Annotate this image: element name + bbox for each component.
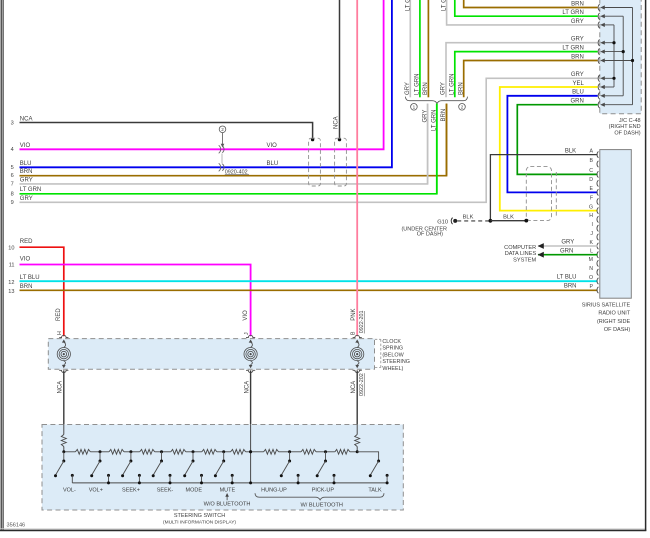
link between breaks (221, 154, 223, 164)
svg-text:TALK: TALK (368, 487, 382, 493)
wire bus to TALK corner (357, 452, 378, 461)
svg-text:STEERING: STEERING (382, 359, 410, 365)
clock spring label leader (375, 338, 381, 340)
switch VOL+ (99, 452, 101, 461)
svg-text:SEEK+: SEEK+ (122, 487, 140, 493)
svg-text:BRN: BRN (20, 284, 33, 290)
node shield drain 2 (338, 138, 341, 141)
svg-text:H: H (589, 213, 593, 219)
svg-text:PNK: PNK (351, 308, 357, 320)
clock spring pin top J (246, 335, 255, 337)
svg-text:2: 2 (461, 105, 464, 110)
clock spring coil 2 (244, 348, 257, 361)
J/C pin row4 GRY (598, 39, 599, 46)
wire NCA below clock spring 1 (63, 370, 65, 424)
svg-text:PICK-UP: PICK-UP (312, 487, 335, 493)
clock spring pin bottom 2 (246, 370, 255, 372)
svg-text:GRN: GRN (570, 99, 583, 105)
node G10 (453, 219, 457, 223)
arrow computer data L (538, 252, 544, 258)
break symbol on VIO (219, 145, 221, 153)
svg-text:E: E (590, 186, 594, 192)
svg-text:L: L (590, 249, 593, 255)
svg-text:356146: 356146 (7, 523, 26, 529)
component Sirius satellite radio unit box (600, 150, 632, 299)
svg-text:LT GRN: LT GRN (432, 110, 438, 131)
arrow computer data K (538, 243, 544, 249)
svg-text:VOL-: VOL- (63, 487, 76, 493)
J/C bus C (GRY-GRY-GRY-YEL) (613, 25, 615, 87)
wire YEL J/C row8 to Sirius pin G (500, 87, 598, 211)
node bus C row7 (612, 77, 615, 80)
clock spring pin top H (59, 335, 68, 337)
shield box 3 outer edge (555, 172, 557, 218)
svg-text:BRN: BRN (20, 169, 33, 175)
resistor R1 vertical (63, 424, 65, 434)
shield box 2 (335, 138, 347, 186)
svg-text:MODE: MODE (186, 487, 203, 493)
wire BLK to shield (490, 220, 526, 222)
svg-text:M: M (589, 257, 593, 263)
svg-text:N: N (589, 266, 593, 272)
page right border (645, 0, 647, 531)
svg-text:C: C (589, 168, 593, 174)
wire GRN Sirius pin L (538, 254, 598, 256)
svg-text:I: I (592, 222, 593, 228)
wire GRY group2 from J/C row4 (446, 43, 598, 98)
svg-text:RED: RED (20, 239, 33, 245)
switch HUNG-UP (289, 452, 291, 461)
wire GRY merged (427, 104, 429, 184)
svg-text:G: G (589, 204, 593, 210)
svg-text:6: 6 (11, 173, 14, 179)
svg-text:SEEK-: SEEK- (157, 487, 174, 493)
svg-text:YEL: YEL (572, 81, 584, 87)
wire BRN group2 from J/C row6 (464, 61, 598, 98)
svg-text:NCA: NCA (333, 116, 339, 129)
svg-text:8: 8 (11, 191, 14, 197)
svg-text:O: O (589, 275, 593, 281)
wire NCA vertical to shield drain 2 (339, 0, 341, 139)
node bus B row5 (622, 50, 625, 53)
switch PICK-UP (325, 452, 327, 461)
connector pointer arrow (222, 133, 224, 144)
svg-text:NCA: NCA (20, 116, 33, 122)
svg-text:7: 7 (11, 182, 14, 188)
svg-text:BLK: BLK (463, 215, 474, 221)
svg-text:1: 1 (413, 105, 416, 110)
bracket W/ BLUETOOTH (255, 493, 384, 500)
svg-text:GRN: GRN (560, 248, 573, 254)
shield box 1 (309, 138, 321, 186)
svg-text:K: K (590, 240, 594, 246)
wire LT GRN merged (436, 104, 438, 194)
svg-text:NCA: NCA (244, 381, 250, 394)
svg-text:OF DASH): OF DASH) (604, 327, 630, 333)
J/C pin row8 YEL (598, 84, 599, 91)
node shield drain 1 (311, 138, 314, 141)
wire LT GRN group2 from J/C row5 (455, 52, 598, 98)
svg-text:12: 12 (8, 280, 14, 286)
svg-text:LT GRN: LT GRN (415, 74, 421, 95)
switch SEEK- (161, 452, 163, 461)
wire GRY group1 (409, 0, 411, 97)
svg-text:BLK: BLK (565, 149, 576, 155)
wire RED pin10 to clock spring (20, 247, 64, 336)
J/C pin row5 LT GRN (598, 48, 599, 55)
ladder tap nodes (62, 450, 65, 453)
wire NCA below clock spring 2 (250, 370, 252, 424)
svg-text:BRN: BRN (458, 82, 464, 95)
svg-text:A: A (590, 148, 594, 154)
svg-text:VIO: VIO (20, 143, 31, 149)
svg-text:DATA LINES: DATA LINES (505, 251, 537, 257)
svg-text:(RIGHT SIDE: (RIGHT SIDE (597, 319, 631, 325)
wire BRN pin6 (20, 104, 447, 176)
svg-text:BLU: BLU (20, 161, 32, 167)
node shield drain 3 (524, 219, 528, 223)
svg-text:OF DASH): OF DASH) (614, 131, 640, 137)
wire LT BLU pin12 to Sirius pin O (20, 280, 598, 282)
svg-text:(MULTI INFORMATION DISPLAY): (MULTI INFORMATION DISPLAY) (163, 520, 236, 526)
svg-text:MUTE: MUTE (220, 487, 236, 493)
svg-text:BRN: BRN (571, 54, 584, 60)
svg-text:BLU: BLU (267, 161, 279, 167)
wire VIO pin11 to clock spring (20, 265, 251, 337)
wire LT GRN group1 (419, 0, 421, 97)
junction connector J/C C-48 box (600, 0, 641, 114)
clock spring coil 3 (351, 348, 364, 361)
wire LT GRN pin8 (20, 104, 437, 194)
bottom bus nodes (107, 481, 110, 484)
wire BLU pin5 (20, 0, 392, 167)
svg-text:BLU: BLU (572, 90, 584, 96)
wire BRN group1 (427, 0, 429, 97)
wire NCA below clock spring 3 (356, 370, 358, 424)
bottom common bus (72, 482, 387, 484)
clock spring coil 1 (57, 348, 70, 361)
wire BRN merged (446, 104, 448, 176)
svg-text:VIO: VIO (267, 143, 278, 149)
svg-text:GRY: GRY (441, 82, 447, 95)
wire GRY to J/C row3 (447, 0, 598, 25)
svg-text:NCA: NCA (351, 381, 357, 394)
node bus A row6 (631, 59, 634, 62)
clock spring pin bottom 3 (353, 370, 362, 372)
svg-text:GRY: GRY (561, 240, 574, 246)
options merge bracket (405, 97, 467, 104)
J/C bus B (LTGRN-LTGRN-BLU) (622, 16, 624, 96)
svg-text:LT GRN: LT GRN (20, 187, 41, 193)
shield box 3 (526, 167, 551, 221)
svg-text:BRN: BRN (571, 1, 584, 7)
svg-text:GRY: GRY (571, 19, 584, 25)
svg-text:VOL+: VOL+ (89, 487, 103, 493)
svg-text:LT BLU: LT BLU (20, 275, 40, 281)
svg-text:G10: G10 (437, 219, 448, 225)
svg-text:J: J (590, 231, 593, 237)
wire common vertical (VIO channel) (250, 424, 252, 483)
connector ref circle 2 (219, 126, 226, 133)
svg-text:GRY: GRY (20, 196, 33, 202)
svg-text:LT GRN: LT GRN (562, 10, 583, 16)
node BLK junction (489, 219, 493, 223)
svg-text:WHEEL): WHEEL) (382, 366, 403, 372)
svg-text:STEERING SWITCH: STEERING SWITCH (174, 513, 225, 519)
J/C pin row6 BRN (598, 57, 599, 64)
wire LT GRN to J/C row2 (455, 0, 598, 16)
svg-text:J/C C-48: J/C C-48 (619, 118, 641, 124)
svg-text:BRN: BRN (564, 283, 577, 289)
wire GRY Sirius pin K (538, 245, 598, 247)
switch TALK (377, 460, 380, 463)
J/C pin row2 LT GRN (598, 13, 599, 20)
J/C pin row10 GRN (598, 101, 599, 108)
svg-text:D: D (589, 177, 593, 183)
svg-text:5: 5 (11, 165, 14, 171)
svg-text:BRN: BRN (441, 109, 447, 122)
svg-text:BLK: BLK (503, 215, 514, 221)
page bottom border (0, 528, 646, 530)
svg-text:B: B (350, 331, 356, 335)
svg-text:SPRING: SPRING (382, 346, 403, 352)
wire NCA pin3 (black) to shield drain (20, 123, 313, 140)
svg-text:CLOCK: CLOCK (382, 339, 401, 345)
wire GRN J/C row10 to Sirius pin C (517, 105, 597, 175)
wire GRY pin7 (20, 104, 428, 184)
svg-text:GRY: GRY (422, 110, 428, 123)
svg-text:13: 13 (8, 289, 14, 295)
resistor ladder bus (64, 451, 76, 453)
label W/O BLUETOOTH (225, 493, 229, 497)
svg-text:F: F (590, 195, 593, 201)
ground G10 arrow (451, 218, 452, 225)
wire GRY pin9 to J/C row7 (20, 78, 598, 202)
wire VIO pin4 (20, 0, 384, 149)
svg-text:(RIGHT END: (RIGHT END (609, 124, 641, 130)
J/C pin row3 GRY (598, 22, 599, 29)
svg-text:NCA: NCA (58, 381, 64, 394)
svg-text:RED: RED (56, 308, 62, 321)
wire BLK dashed to G10 (457, 220, 489, 222)
svg-text:LT G: LT G (406, 0, 412, 11)
svg-text:10: 10 (8, 245, 14, 251)
J/C pin row9 BLU (598, 93, 599, 100)
component clock spring box (48, 339, 374, 370)
J/C pin row7 GRY (598, 75, 599, 82)
svg-text:LT BLU: LT BLU (557, 274, 577, 280)
svg-text:GRY: GRY (571, 37, 584, 43)
option circle 1 (411, 104, 418, 111)
svg-text:VIO: VIO (20, 256, 31, 262)
svg-text:GRY: GRY (571, 72, 584, 78)
break symbol on BLU (219, 163, 221, 171)
svg-text:4: 4 (11, 147, 14, 153)
switch VOL- (63, 452, 65, 461)
clock spring pin bottom 1 (59, 370, 68, 372)
svg-text:RADIO UNIT: RADIO UNIT (598, 311, 630, 317)
svg-text:H: H (57, 331, 63, 335)
clock spring pin top B (353, 335, 362, 337)
svg-text:GRY: GRY (405, 82, 411, 95)
svg-text:P: P (590, 284, 594, 290)
svg-text:HUNG-UP: HUNG-UP (261, 487, 287, 493)
svg-text:2: 2 (221, 127, 224, 132)
svg-text:W/O BLUETOOTH: W/O BLUETOOTH (204, 502, 251, 508)
svg-text:(BELOW: (BELOW (382, 352, 404, 358)
wire BRN to J/C row1 (464, 0, 598, 8)
component steering switch box (42, 425, 403, 511)
wire BRN pin13 to Sirius pin P (20, 289, 598, 291)
svg-text:11: 11 (9, 263, 15, 269)
svg-text:B: B (590, 158, 594, 164)
option circle 2 (459, 104, 466, 111)
svg-text:GRY: GRY (20, 177, 33, 183)
svg-text:BRN: BRN (423, 82, 429, 95)
switch MUTE (223, 452, 225, 461)
svg-text:COMPUTER: COMPUTER (504, 245, 536, 251)
resistor R2 vertical (356, 424, 358, 434)
svg-text:SIRIUS SATELLITE: SIRIUS SATELLITE (582, 302, 631, 308)
page left double border (0, 0, 2, 531)
svg-text:LT GRN: LT GRN (450, 74, 456, 95)
svg-text:3: 3 (11, 121, 14, 127)
svg-text:9: 9 (11, 200, 14, 206)
switch SEEK+ (130, 452, 132, 461)
svg-text:W/ BLUETOOTH: W/ BLUETOOTH (300, 502, 342, 508)
svg-text:SYSTEM: SYSTEM (513, 258, 536, 264)
switch MODE (192, 452, 194, 461)
wire BLK Sirius pin A (490, 155, 597, 221)
svg-text:J: J (244, 332, 250, 335)
J/C pin row1 BRN (598, 4, 599, 11)
svg-text:LT GRN: LT GRN (562, 46, 583, 52)
Sirius pin arcs A-P (597, 151, 598, 157)
svg-text:OF DASH): OF DASH) (417, 231, 443, 237)
node bus C row4 (612, 41, 615, 44)
J/C bus A (BRN-BRN-GRN) (632, 8, 634, 105)
wire BLU J/C row9 to Sirius pin E (507, 96, 597, 193)
svg-text:VIO: VIO (243, 310, 249, 321)
wire PNK vertical to clock spring (356, 0, 358, 336)
